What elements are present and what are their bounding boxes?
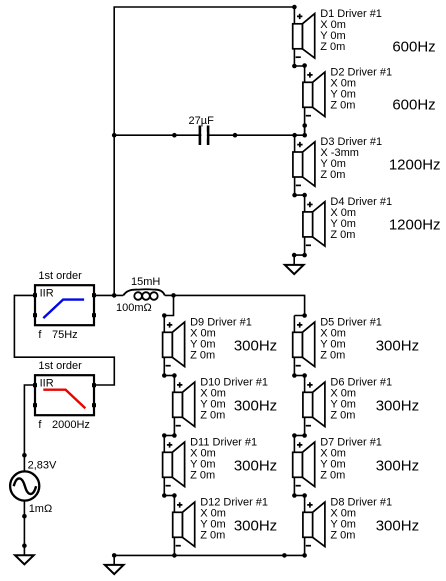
- svg-text:Z 0m: Z 0m: [190, 470, 215, 482]
- svg-text:Z 0m: Z 0m: [320, 41, 345, 53]
- svg-text:Z 0m: Z 0m: [330, 229, 355, 241]
- svg-text:15mH: 15mH: [131, 276, 160, 288]
- svg-text:300Hz: 300Hz: [234, 398, 277, 415]
- svg-text:300Hz: 300Hz: [376, 398, 419, 415]
- svg-text:2,83V: 2,83V: [28, 460, 57, 472]
- svg-text:1200Hz: 1200Hz: [389, 217, 441, 234]
- svg-text:IIR: IIR: [40, 287, 54, 299]
- svg-text:1st order: 1st order: [38, 270, 82, 282]
- svg-text:Z 0m: Z 0m: [190, 350, 215, 362]
- svg-text:Z 0m: Z 0m: [200, 410, 225, 422]
- svg-text:1mΩ: 1mΩ: [29, 503, 53, 515]
- svg-text:IIR: IIR: [40, 377, 54, 389]
- svg-text:1200Hz: 1200Hz: [389, 157, 441, 174]
- svg-text:Z 0m: Z 0m: [330, 530, 355, 542]
- svg-text:300Hz: 300Hz: [234, 518, 277, 535]
- svg-text:27µF: 27µF: [189, 115, 215, 127]
- svg-text:Z 0m: Z 0m: [200, 530, 225, 542]
- svg-text:Z 0m: Z 0m: [320, 169, 345, 181]
- svg-text:300Hz: 300Hz: [376, 458, 419, 475]
- svg-text:Z 0m: Z 0m: [330, 100, 355, 112]
- svg-text:100mΩ: 100mΩ: [116, 302, 152, 314]
- svg-text:600Hz: 600Hz: [392, 38, 435, 55]
- svg-text:600Hz: 600Hz: [392, 97, 435, 114]
- svg-text:Z 0m: Z 0m: [330, 410, 355, 422]
- svg-text:1st order: 1st order: [38, 360, 82, 372]
- svg-text:2000Hz: 2000Hz: [52, 419, 90, 431]
- svg-text:300Hz: 300Hz: [234, 338, 277, 355]
- svg-text:75Hz: 75Hz: [52, 329, 78, 341]
- svg-text:300Hz: 300Hz: [234, 458, 277, 475]
- svg-text:Z 0m: Z 0m: [320, 350, 345, 362]
- svg-text:300Hz: 300Hz: [376, 518, 419, 535]
- svg-text:Z 0m: Z 0m: [320, 470, 345, 482]
- svg-text:300Hz: 300Hz: [376, 338, 419, 355]
